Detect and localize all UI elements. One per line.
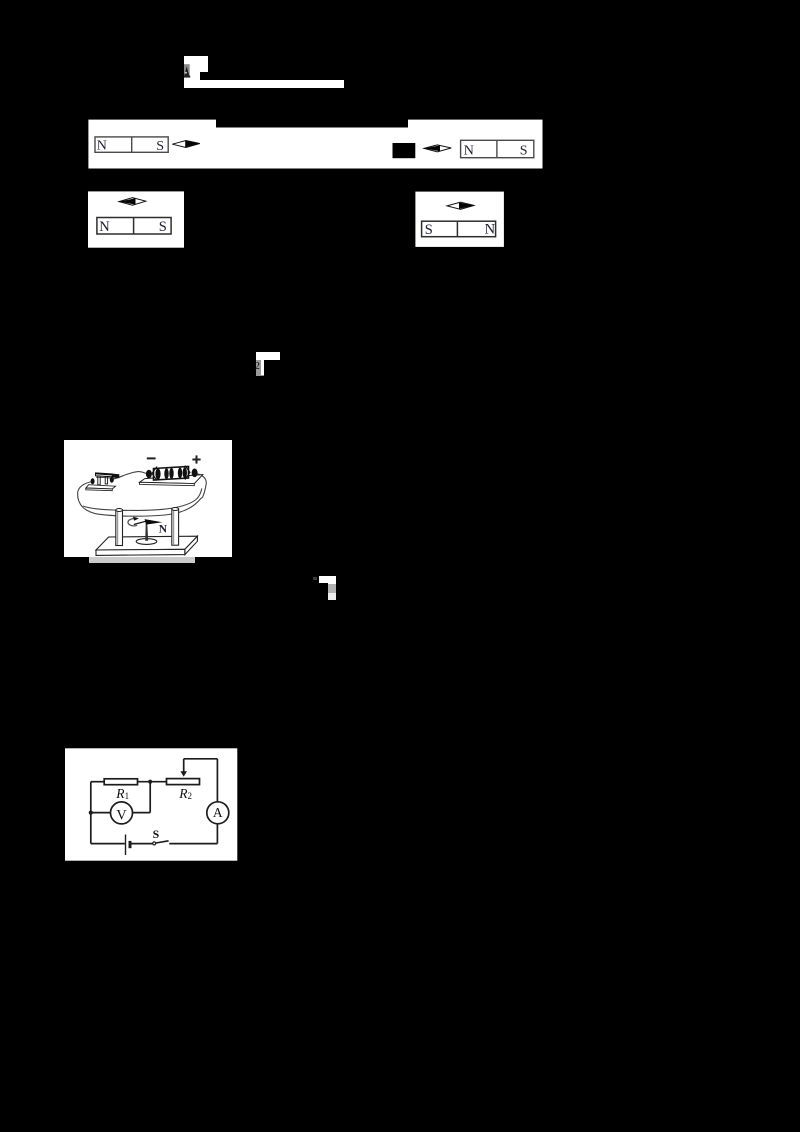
svg-text:N: N: [485, 222, 496, 238]
batteries: [154, 467, 189, 481]
svg-text:N: N: [99, 219, 110, 235]
black notch (top): [216, 119, 408, 128]
top wire: [184, 758, 218, 760]
wire battery to switch: [131, 843, 153, 845]
answer blank bar: [184, 80, 344, 88]
magnet 2 (N|S): [461, 140, 534, 157]
resistor R1: [104, 779, 137, 785]
switch base plate: [86, 485, 116, 489]
figure row 2 right: magnet S|N with needle above: [415, 191, 504, 247]
svg-text:N: N: [97, 139, 107, 154]
figure row 1: two bar magnets with compass needles: [88, 119, 543, 169]
voltmeter V: [111, 802, 133, 824]
magnet (S|N): [422, 221, 496, 237]
switch terminals: [91, 478, 95, 484]
battery terminals: [146, 470, 152, 479]
slider arrowhead: [180, 771, 187, 776]
wire to voltmeter: [132, 812, 150, 814]
wire loop lower strand: [83, 498, 203, 517]
needle (points right): [447, 202, 474, 209]
wire R1 left: [91, 781, 104, 783]
pivot spike: [145, 524, 148, 541]
left post: [116, 509, 123, 546]
circuit diagram figure: [65, 748, 238, 861]
base board: [96, 536, 197, 550]
wire loop upper strand: [83, 489, 202, 511]
svg-text:S: S: [159, 219, 167, 235]
small fragment "7" (mid page): [313, 577, 317, 581]
magnet 1 (N|S): [95, 137, 168, 152]
wire junction down: [149, 782, 151, 813]
svg-text:S: S: [153, 827, 160, 841]
rheostat R2: [167, 779, 200, 785]
svg-text:S: S: [425, 222, 433, 238]
battery holder plate: [140, 475, 203, 484]
wire: battery right down: [195, 473, 207, 498]
compass needle 2 (points left): [424, 145, 451, 152]
svg-text:N: N: [464, 143, 474, 158]
svg-text:V: V: [116, 807, 127, 823]
small fragment "2" (mid page): [256, 352, 280, 360]
magnet (N|S): [97, 218, 171, 235]
needle head (points right): [145, 519, 163, 525]
plus label: [192, 455, 200, 463]
wire R1 right to R2 left: [138, 781, 167, 783]
white band: [88, 120, 542, 169]
junction dots: [148, 780, 152, 784]
black square cutout: [393, 143, 416, 158]
svg-text:1: 1: [125, 791, 130, 801]
right post: [172, 508, 179, 546]
svg-text:2: 2: [255, 360, 261, 372]
svg-text:S: S: [156, 139, 164, 154]
switch posts: [98, 476, 100, 485]
svg-text:N: N: [159, 524, 168, 536]
compass needle 1 (points right): [172, 141, 200, 148]
battery cell: [125, 835, 127, 856]
right vertical upper: [216, 759, 218, 802]
gray strip below experiment box: [89, 557, 195, 563]
wire: switch left down: [78, 482, 93, 508]
right vertical lower: [216, 824, 218, 844]
needle (points left): [119, 198, 146, 206]
wire switch to right: [169, 843, 217, 845]
needle tail: [134, 521, 146, 524]
wire: switch to battery: [112, 472, 146, 480]
slider arrow stem: [183, 759, 185, 772]
formula fragment block (top): [184, 56, 208, 72]
switch S: [153, 842, 156, 845]
svg-text:2: 2: [188, 791, 193, 801]
svg-text:A: A: [213, 805, 223, 820]
ammeter A: [207, 802, 229, 824]
pivot base: [136, 539, 157, 545]
rotation arc: [128, 519, 137, 526]
left vertical wire: [90, 782, 92, 844]
experiment figure: current over a compass needle: [64, 440, 232, 557]
minus label: [147, 457, 156, 459]
figure row 2 left: magnet N|S with needle above: [88, 191, 184, 248]
formula glyph: [183, 63, 192, 79]
switch top bar: [96, 473, 113, 477]
bottom wire left: [91, 843, 125, 845]
svg-text:S: S: [520, 144, 528, 159]
